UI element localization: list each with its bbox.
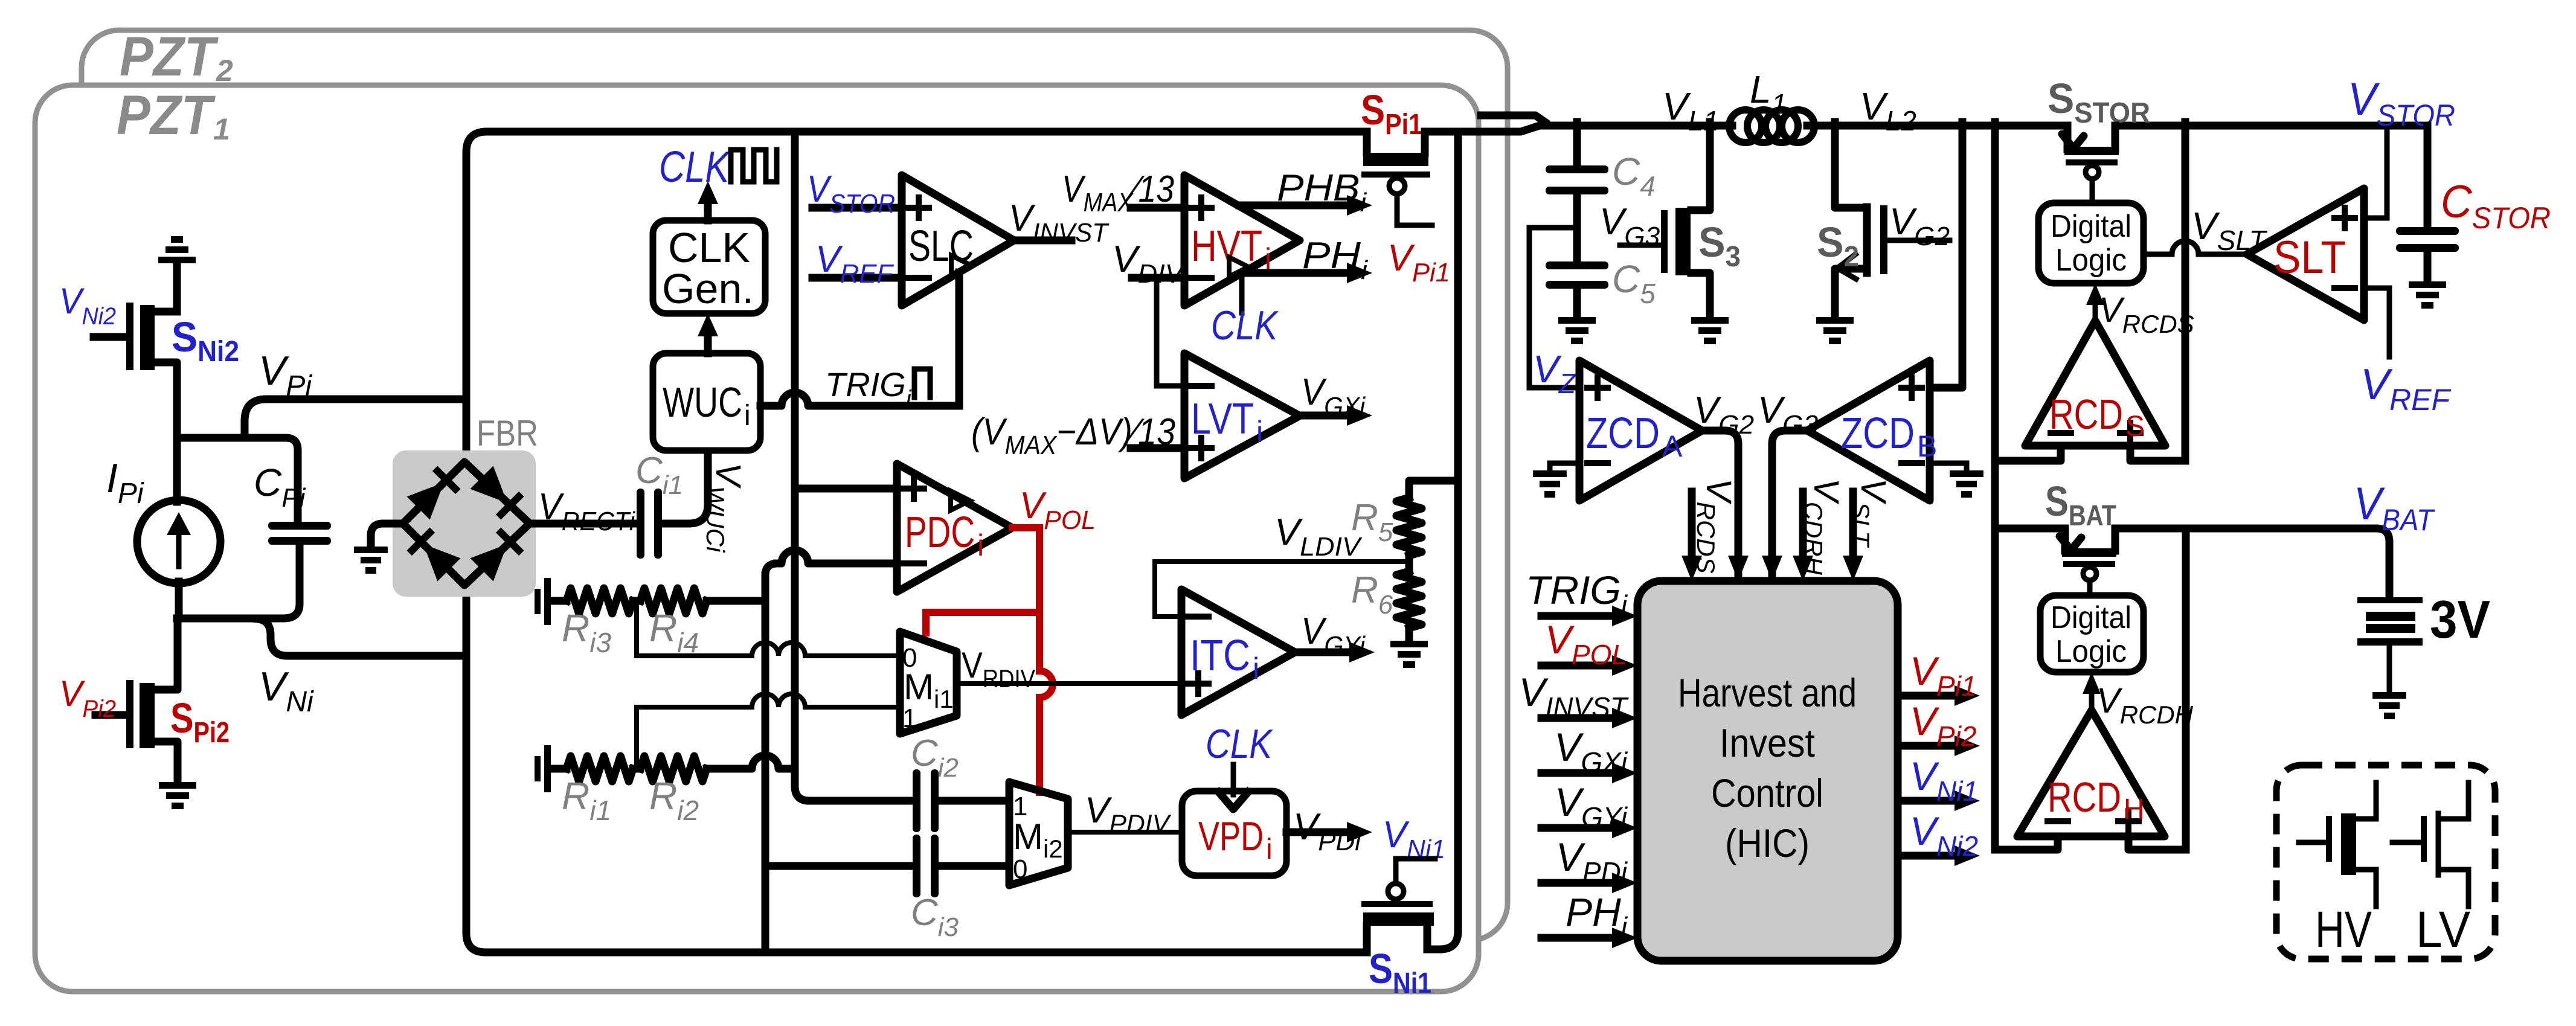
S_Ni1 leads (1367, 926, 1427, 952)
svg-text:PZT: PZT (120, 26, 219, 88)
capacitor C_i2 (913, 769, 939, 832)
RCD_S minus lead to V_L2 frame (1995, 446, 2061, 461)
resistor R_i3 (551, 597, 567, 605)
V_REF input wire (812, 274, 902, 282)
wire S_Pi2 drain (153, 618, 178, 690)
svg-text:SLT: SLT (2273, 232, 2346, 283)
V_Z tap wire to ZCDA plus (1529, 228, 1579, 388)
wire rail corner down to C_STOR (2424, 126, 2432, 227)
SLT minus input wire to V_REF (2364, 288, 2389, 357)
HIC output wire V_Ni2 (1898, 852, 1967, 860)
svg-text:S3: S3 (1698, 219, 1741, 273)
current source I_Pi (137, 500, 220, 583)
wire C_STOR to ground (2424, 252, 2432, 281)
PDCi clock marker (951, 491, 970, 510)
wire current source bottom / C_Pi bottom to V_Ni node (177, 545, 466, 656)
wire bus A to C_i3 (765, 862, 913, 870)
PH output wire (1242, 269, 1359, 277)
wire S_Pi2 source to ground (153, 742, 178, 782)
electrode symbol at R_i3 (535, 578, 551, 625)
wire C4 to C5 (1573, 194, 1581, 261)
ground below S2 (1816, 317, 1854, 344)
svg-text:i: i (977, 528, 984, 562)
svg-text:LVT: LVT (1191, 395, 1254, 443)
PZT1 module outline (35, 85, 1479, 992)
ground at ZCDB minus (1950, 470, 1983, 498)
svg-text:VZ: VZ (1533, 347, 1577, 399)
comparator ZCDA (1579, 361, 1702, 501)
arrowhead V_G3 into HIC (1762, 556, 1782, 581)
svg-text:VSTOR: VSTOR (2348, 74, 2455, 132)
comparator RCD_H (2017, 710, 2165, 836)
HIC output wire V_Ni1 (1898, 797, 1967, 805)
svg-text:CSTOR: CSTOR (2441, 176, 2551, 235)
svg-text:Digital: Digital (2051, 600, 2131, 635)
svg-text:SBAT: SBAT (2045, 478, 2116, 532)
FBR diode bottom-right (470, 527, 524, 581)
svg-text:Invest: Invest (1720, 720, 1815, 765)
capacitor C_Pi (268, 522, 331, 545)
svg-text:3V: 3V (2430, 589, 2490, 649)
V_POL input wire (1541, 662, 1624, 670)
wire S_Ni2 source to V_Pi node (153, 362, 177, 438)
VPDi box (1182, 791, 1286, 876)
VPDi output wire (1286, 829, 1359, 836)
supply symbol above S_Ni2 (158, 236, 196, 263)
wire S3 source to ground (1691, 273, 1710, 317)
transistor S_Pi2 (95, 680, 155, 748)
transistor S3 (1661, 210, 1668, 273)
wire PDC plus input from bus B (795, 485, 897, 493)
HIC output wire V_Pi2 (1898, 742, 1967, 750)
svg-text:VPD: VPD (1198, 813, 1264, 859)
transistor S_Pi1 (1367, 132, 1458, 153)
svg-text:Logic: Logic (2055, 634, 2127, 669)
V_GXi input wire (1541, 769, 1624, 777)
svg-text:PDC: PDC (905, 508, 975, 557)
wire V_L2 branch down to ZCDB plus (1930, 122, 1962, 388)
wire ZCDA output down to HIC (V_G2) (1702, 431, 1738, 581)
V_STOR input wire (812, 204, 902, 212)
svg-text:ZCD: ZCD (1586, 409, 1660, 458)
comparator SLC (902, 175, 1014, 306)
svg-text:ZCD: ZCD (1841, 409, 1915, 458)
svg-text:Logic: Logic (2055, 243, 2127, 278)
transistor S_BAT (2065, 528, 2115, 551)
transistor S_Ni1 (1361, 901, 1433, 907)
V_DIV input wire (1132, 274, 1184, 282)
comparator PDCi (897, 464, 1012, 592)
svg-text:C4: C4 (1612, 150, 1656, 202)
node V_Pi junction wires (177, 399, 466, 522)
S2 source arrow (1835, 269, 1866, 317)
svg-text:Control: Control (1711, 771, 1823, 815)
svg-text:S: S (2125, 411, 2145, 443)
comparator RCD_S (2025, 321, 2165, 446)
svg-text:CLK: CLK (668, 224, 750, 271)
svg-text:Digital: Digital (2051, 209, 2131, 244)
SLC output wire (1014, 237, 1071, 245)
svg-text:Gen.: Gen. (662, 265, 754, 312)
svg-text:RCD: RCD (2048, 774, 2121, 821)
wire rail to S2 drain (1835, 122, 1866, 208)
transistor S_STOR (2067, 126, 2115, 149)
CLK wire into VPDi (1231, 765, 1236, 795)
resistor R_i1 (551, 765, 567, 773)
RCD_H minus lead to frame (1995, 836, 2058, 850)
CLK waveform glyph (731, 150, 777, 182)
TRIGi input wire (1541, 612, 1624, 620)
svg-text:RCD: RCD (2049, 391, 2123, 438)
svg-text:VRCDS: VRCDS (2099, 290, 2194, 338)
wire V_RCDS into HIC (1688, 492, 1696, 568)
svg-text:1: 1 (902, 704, 917, 733)
resistor R_i4 (633, 597, 640, 605)
wire tap R_i1/R_i2 to M_i1 input1 (637, 694, 900, 766)
resistor R_i2 (633, 765, 640, 773)
TRIGi pulse glyph (914, 369, 930, 397)
ground at S_Pi2 (159, 782, 196, 809)
legend HV transistor (2299, 783, 2376, 906)
bus A (V_Ni bus) vertical (765, 563, 777, 952)
HVTi clock marker and CLK wire (1229, 257, 1248, 277)
S_Ni1 gate wire (1396, 859, 1435, 883)
digital logic box (battery) (2040, 595, 2144, 672)
wire ZCDB output down to HIC (V_G3) (1772, 431, 1807, 581)
wire battery to ground (2387, 646, 2392, 692)
RCD_S plus lead to V_STOR frame (2130, 446, 2185, 461)
svg-text:PZT: PZT (117, 85, 216, 146)
wire V_DIV branch to LVT minus (1157, 278, 1184, 386)
svg-text:HV: HV (2315, 901, 2372, 958)
svg-text:i: i (1256, 415, 1263, 449)
legend LV transistor (2392, 783, 2468, 906)
svg-text:Harvest and: Harvest and (1678, 670, 1857, 715)
svg-text:VBAT: VBAT (2354, 478, 2435, 537)
boundary crossing jog bar (1481, 115, 1545, 122)
capacitor C5 (1546, 261, 1608, 289)
wire ITC minus feedback to V_LDIV (1155, 562, 1409, 617)
mux M_i2 (1009, 782, 1068, 885)
comparator SLT (2247, 188, 2364, 320)
wire S_BAT rail (1995, 528, 2389, 597)
svg-text:0: 0 (1013, 854, 1027, 884)
arrow WUCi to CLK Gen (704, 326, 712, 353)
transistor S2 (1880, 205, 1887, 274)
svg-text:VREF: VREF (2360, 361, 2451, 417)
svg-text:LV: LV (2416, 901, 2470, 958)
PH_i input wire (1541, 934, 1624, 942)
svg-text:(VMAX−ΔV)∕13: (VMAX−ΔV)∕13 (971, 411, 1175, 460)
V_RCDH arrow RCDH to digital logic (2089, 686, 2095, 710)
comparator ITCi (1181, 589, 1295, 715)
svg-text:(HIC): (HIC) (1725, 821, 1810, 865)
ground below R6 (1390, 641, 1428, 668)
frame wire V_L2 vertical (1991, 122, 1999, 850)
M_i2 output wire V_PDIV (1068, 830, 1182, 835)
ground below battery (2372, 692, 2406, 719)
svg-text:VG2: VG2 (1889, 201, 1950, 251)
wire FBR left vertex to ground (371, 524, 403, 547)
PHB output wire (1239, 202, 1359, 210)
chip box right edge (1427, 132, 1458, 949)
capacitor C_STOR (2396, 227, 2459, 252)
V_INVST input wire (1541, 714, 1624, 722)
wire V_SLT into HIC (1849, 492, 1857, 568)
FBR diamond wires (403, 462, 530, 585)
FBR diode top-right (470, 466, 524, 519)
V_PDi input wire (1541, 879, 1624, 887)
HIC output wire V_Pi1 (1898, 692, 1967, 700)
wire TRIGi WUCi to SLC clock (760, 393, 959, 406)
V_GYi input wire (1541, 824, 1624, 832)
SLC clock marker (951, 255, 971, 275)
wire main top rail (1458, 125, 2427, 132)
ground below C_STOR (2409, 281, 2446, 309)
FBR diode bottom-left (406, 527, 460, 581)
ground at FBR (354, 547, 388, 574)
wire rail to S3 drain (1691, 122, 1710, 210)
wire rail to C4 (1573, 122, 1581, 165)
ground below S3 (1691, 317, 1729, 344)
V_MAX/13 input wire (1131, 204, 1184, 212)
wire ZCDB minus to ground (1930, 463, 1967, 470)
svg-text:CLK: CLK (1206, 721, 1273, 767)
CLK Gen box (653, 220, 765, 313)
ground at ZCDA minus (1533, 470, 1567, 498)
S_BAT gate wire to digital logic (2087, 580, 2093, 595)
chip box left edge / top edge / V_Pi bus (466, 132, 1367, 462)
V_RCDS arrow RCDS to digital logic (2093, 297, 2098, 321)
wire C_i3 to M_i2 input 0 (939, 862, 1009, 870)
svg-text:C5: C5 (1612, 257, 1656, 309)
ground below C5 (1558, 317, 1596, 344)
WUCi box (653, 353, 760, 450)
legend dashed box (2276, 765, 2495, 959)
resistor R6 (1396, 571, 1422, 628)
svg-text:CLK: CLK (659, 143, 730, 191)
inductor L1 (1729, 110, 1814, 143)
transistor S_Ni2 (94, 303, 155, 370)
wire C_i1 to WUCi input (662, 450, 708, 524)
wire bus B corner to C_i2 (809, 797, 913, 805)
svg-text:B: B (1917, 429, 1937, 463)
PZT2 module outline (82, 30, 1508, 940)
svg-text:VG3: VG3 (1599, 201, 1660, 251)
ITC output wire V_GYi (1295, 649, 1361, 656)
bus B vertical from chip top (795, 132, 809, 801)
comparator LVTi (1184, 353, 1300, 478)
wire V_RECTi FBR right vertex to C_i1 (530, 520, 637, 528)
resistor R5 (1396, 498, 1422, 556)
svg-text:SSTOR: SSTOR (2048, 75, 2150, 129)
svg-text:S2: S2 (1817, 219, 1859, 273)
wire C_i2 to M_i2 input 1 (939, 797, 1009, 805)
electrode symbol at R_i1 (535, 745, 551, 792)
svg-text:ITC: ITC (1190, 632, 1250, 680)
wire S_Ni2 drain to supply (153, 263, 177, 312)
mux M_i1 (900, 632, 957, 734)
wire ZCDA minus to ground (1550, 463, 1579, 470)
frame wire V_BAT vertical (2182, 528, 2190, 850)
arrowhead V_G2 into HIC (1728, 556, 1749, 581)
wire PDC minus input from bus A (777, 550, 897, 563)
wire R5 top to chip right edge (1409, 481, 1458, 498)
capacitor C4 (1546, 165, 1608, 194)
FBR diode top-left (406, 466, 460, 519)
SLT plus input wire to V_STOR rail (2364, 126, 2387, 218)
comparator ZCDB (1807, 361, 1930, 501)
S_Pi1 gate wire (1389, 178, 1405, 194)
V_G2 gate wire at S2 (1887, 238, 1950, 243)
RCD_H plus lead to frame (2128, 836, 2186, 850)
V_POL red net from PDC output (926, 528, 1053, 792)
capacitor C_i3 (913, 835, 939, 897)
V_G3 gate wire at S3 (1620, 243, 1661, 248)
arrow CLK Gen output up (704, 194, 712, 220)
M_i1 output wire V_RDIV (957, 681, 1181, 686)
svg-text:VG3: VG3 (1758, 390, 1819, 440)
comparator HVTi (1184, 175, 1300, 306)
svg-text:H: H (2124, 794, 2145, 826)
svg-text:CLK: CLK (1211, 303, 1279, 348)
svg-text:i: i (1253, 652, 1259, 685)
capacitor C_i1 (637, 489, 662, 559)
wire R_i4 to bus A (707, 597, 765, 605)
LVT output wire V_GXi (1300, 412, 1359, 420)
S_STOR gate wire to digital logic (2090, 179, 2095, 203)
svg-text:1: 1 (213, 112, 230, 146)
svg-text:A: A (1662, 429, 1683, 463)
wire current source top (173, 438, 181, 502)
svg-text:FBR: FBR (477, 413, 538, 454)
wire V_CDRH into HIC (1799, 492, 1807, 568)
svg-text:i: i (744, 400, 751, 432)
wire R6 to ground (1405, 628, 1413, 641)
svg-text:i: i (1266, 833, 1273, 865)
digital logic box (storage) (2038, 203, 2144, 283)
svg-text:WUC: WUC (663, 379, 742, 426)
chip box left edge below FBR to bottom rail (466, 583, 1367, 952)
FBR background (393, 450, 536, 597)
V_LDIV junction wire (1405, 556, 1413, 571)
svg-text:VRCDH: VRCDH (2096, 681, 2194, 729)
wire C5 to ground (1573, 289, 1581, 317)
HIC box (1637, 581, 1898, 961)
wire tap R_i3/R_i4 to M_i1 input0 (637, 604, 900, 656)
(V_MAX-dV)/13 input wire (1131, 444, 1184, 452)
frame wire V_STOR vertical (2182, 122, 2189, 461)
wire digital logic to SLT (V_SLT) (2144, 241, 2249, 254)
battery 3V (2357, 597, 2423, 646)
wire R_i2 to bus B with hop over bus A (707, 755, 795, 769)
svg-text:VINVST: VINVST (1519, 670, 1629, 723)
